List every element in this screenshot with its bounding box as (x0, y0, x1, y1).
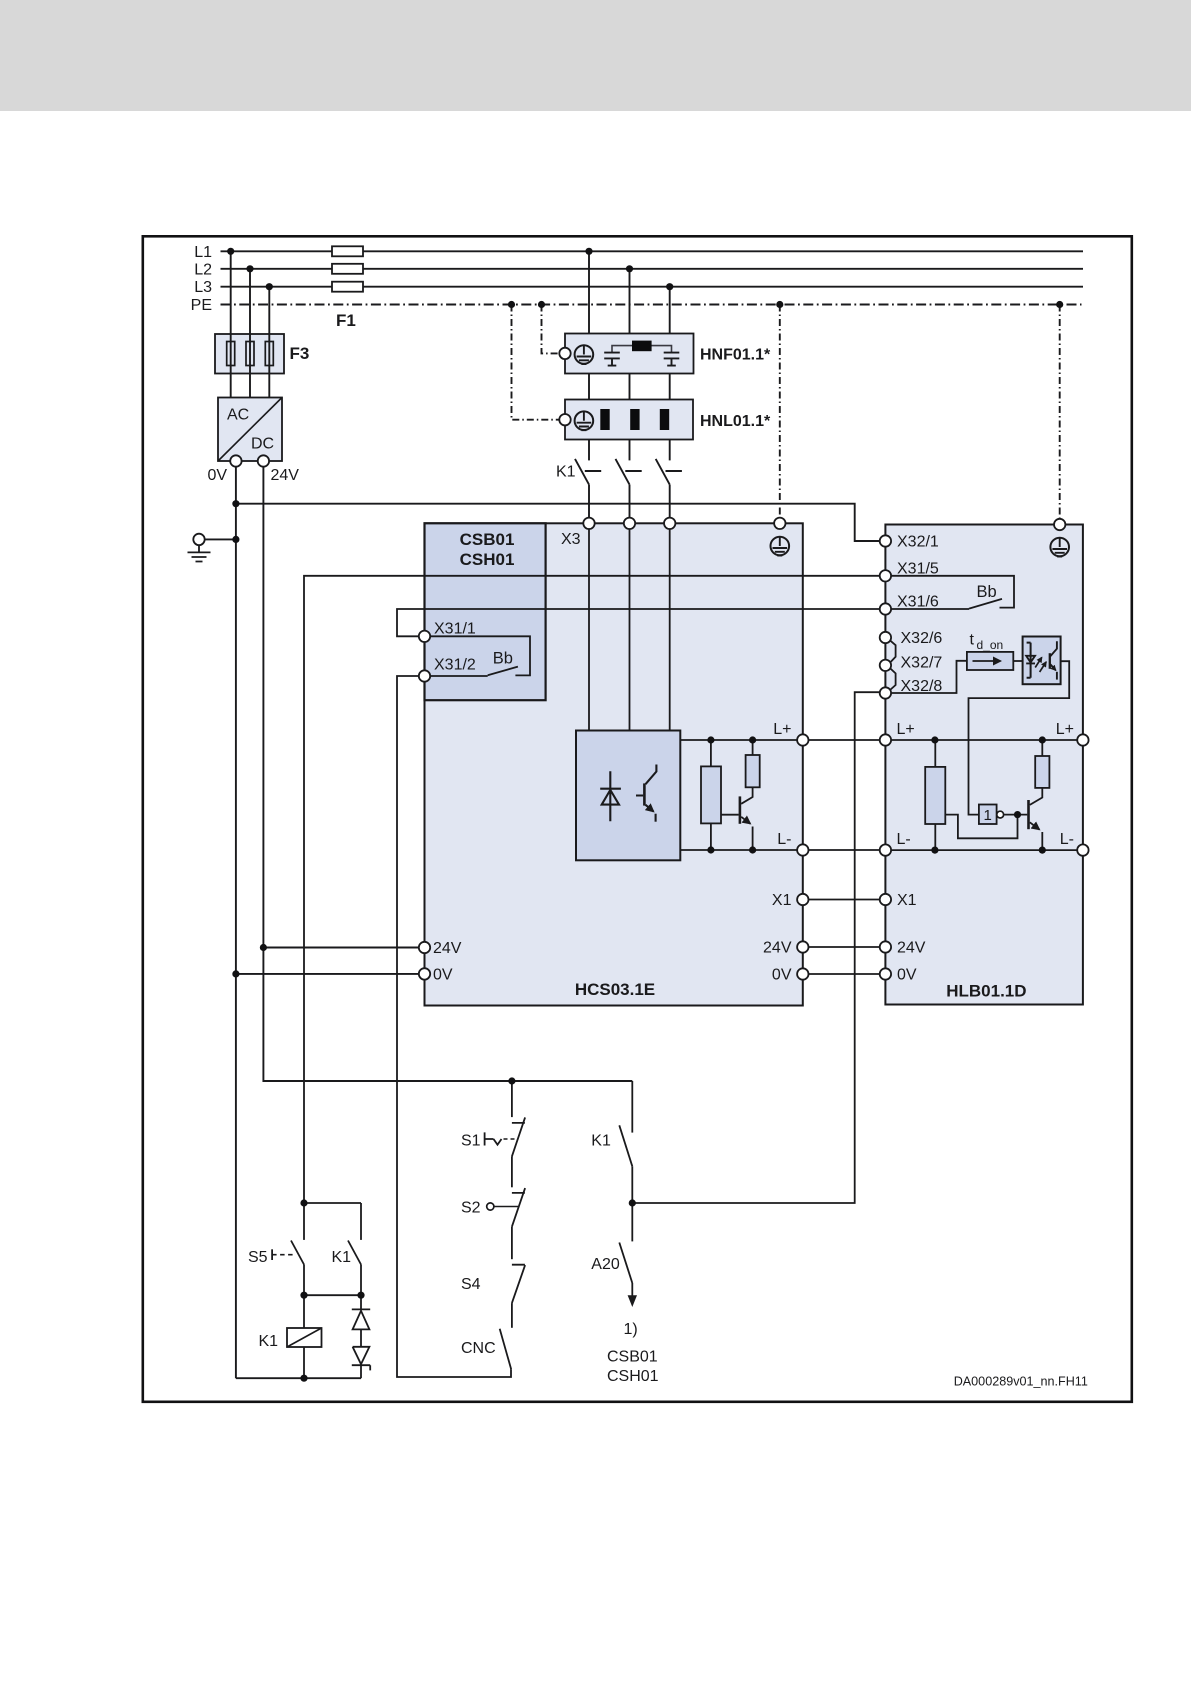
wire HNF to HNL pole 3 (669, 374, 671, 400)
node PE-HLB branch (1056, 301, 1063, 308)
wire resistor R-brake HCS stubs (710, 740, 712, 850)
node L+ R-chopper HLB (1039, 736, 1046, 743)
contact A20 (619, 1243, 632, 1284)
terminal HCS PE (774, 518, 785, 529)
switch S5 (291, 1241, 304, 1265)
svg-text:X1: X1 (897, 892, 917, 909)
node L+ R-chopper HCS (749, 736, 756, 743)
svg-text:24V: 24V (433, 940, 462, 957)
svg-text:X1: X1 (772, 892, 792, 909)
diode D1 freewheeling (360, 1295, 362, 1309)
terminal X32/7 (880, 660, 891, 671)
transistor Q1 HCS chopper (739, 796, 742, 823)
terminal X3 pole 1 (583, 518, 594, 529)
wire HCS to HLB 0V (809, 973, 880, 975)
terminal X32/6 (880, 632, 891, 643)
terminal X31/1 (419, 631, 430, 642)
svg-text:X31/5: X31/5 (897, 560, 939, 577)
wire X32/8 to t_d_on (891, 661, 967, 693)
svg-text:HNF01.1*: HNF01.1* (700, 347, 771, 364)
svg-text:HLB01.1D: HLB01.1D (946, 982, 1026, 1001)
svg-text:S2: S2 (461, 1200, 481, 1217)
wire L- rail HCS (680, 849, 797, 851)
wire 24V rail down to control chain (263, 461, 632, 1081)
wire 24V to HCS 24V (263, 947, 418, 949)
node L2-F3 (246, 265, 253, 272)
wire sense feedback loop (945, 815, 1017, 839)
terminal HNL PE (559, 414, 570, 425)
wire S2 to S4 (511, 1227, 513, 1260)
terminal HCS 0V left (419, 968, 430, 979)
terminal HCS L- (797, 844, 808, 855)
node PE-HNF branch (538, 301, 545, 308)
node 0V feed (232, 970, 239, 977)
contactor K1 pole 2 (616, 459, 642, 485)
diode symbol in rectifier module (600, 771, 621, 821)
wire HNL to K1 pole 1 (588, 440, 590, 461)
transistor Q1 HLB chopper (1027, 800, 1030, 829)
node L- emitter HCS (749, 846, 756, 853)
fuse F3 pole 1 (227, 342, 235, 366)
terminal HCS L+ (797, 734, 808, 745)
svg-text:d_on: d_on (977, 638, 1004, 652)
wire L2 tap to HNF (629, 269, 631, 334)
diode D2 zener (360, 1329, 362, 1346)
svg-text:0V: 0V (897, 967, 917, 984)
node L- R-brake HLB (931, 847, 938, 854)
box F3 fuse holder (215, 334, 284, 374)
terminal HLB L+ left (880, 734, 891, 745)
svg-text:L2: L2 (194, 261, 212, 278)
svg-text:X31/6: X31/6 (897, 594, 939, 611)
wire relay bottom rail to 0V (236, 1377, 361, 1379)
svg-text:24V: 24V (271, 467, 300, 484)
svg-text:PE: PE (191, 297, 212, 314)
terminal HLB L- right (1077, 844, 1088, 855)
AC/DC diagonal (218, 398, 282, 462)
wire PE branch to HNL ground (dash-dot) (512, 305, 560, 420)
capacitor C1 HNF (604, 353, 620, 366)
svg-text:S5: S5 (248, 1249, 268, 1266)
svg-text:X31/2: X31/2 (434, 657, 476, 674)
svg-text:HCS03.1E: HCS03.1E (575, 980, 655, 999)
wire 0V rail down left side (235, 461, 237, 1378)
svg-text:A20: A20 (591, 1256, 620, 1273)
switch S4 (512, 1265, 525, 1303)
wire PE branch to HNF ground (dash-dot) (542, 305, 560, 354)
svg-text:K1: K1 (259, 1333, 279, 1350)
wire K1 pole 3 to X3 (669, 485, 671, 518)
wire bubble to transistor base (1004, 814, 1028, 816)
svg-text:X32/6: X32/6 (901, 630, 943, 647)
svg-text:DA000289v01_nn.FH11: DA000289v01_nn.FH11 (954, 1375, 1088, 1389)
node L1-F3 (227, 248, 234, 255)
terminal HNF PE (559, 348, 570, 359)
gray header band (0, 0, 1191, 111)
node coil bottom rail (300, 1375, 307, 1382)
svg-text:X31/1: X31/1 (434, 621, 476, 638)
box AC/DC power supply (218, 398, 282, 462)
node L2-HNF (626, 265, 633, 272)
resistor R-brake HCS (701, 766, 721, 823)
wire HNF to HNL pole 2 (629, 374, 631, 400)
terminal HCS 24V left (419, 942, 430, 953)
S2 actuator (487, 1203, 494, 1210)
svg-text:L+: L+ (1056, 721, 1074, 738)
terminal X3 pole 3 (664, 518, 675, 529)
wire PE drop to HCS PE terminal (dash-dot) (779, 305, 781, 518)
terminal HLB 0V (880, 968, 891, 979)
node PE-HCS branch (776, 301, 783, 308)
wire X31/6 long link to X31/1 (397, 609, 880, 636)
node PE-HNL branch (508, 301, 515, 308)
wire resistor R-brake HLB stubs (934, 740, 936, 850)
inductor ferrite block HNF (632, 341, 652, 352)
terminal X31/6 (880, 603, 891, 614)
node 24V-S1 chain (508, 1077, 515, 1084)
wire L3 tap to HNF (669, 287, 671, 334)
node S5 top (300, 1199, 307, 1206)
wire HCS to HLB X1 (809, 899, 880, 901)
node L+ R-brake HLB (931, 736, 938, 743)
wire K1 pole 2 to X3 (629, 485, 631, 518)
wire L- rail HLB (891, 849, 1077, 851)
wire S5 to coil node (303, 1265, 305, 1296)
box HNL01.1 mains choke (565, 400, 693, 440)
HLB PE ground symbol (1050, 538, 1069, 557)
wire optocoupler output to driver 1 (969, 661, 1070, 814)
node diode branch top (357, 1292, 364, 1299)
terminal 24V of power supply (258, 455, 269, 466)
earth ground wire (205, 538, 236, 540)
wire K1 branch (631, 1081, 633, 1133)
terminal X31/2 (419, 670, 430, 681)
wire K1 pole 1 to X3 (588, 485, 590, 518)
t_d_on arrow (973, 660, 1001, 662)
wire PE dash-dot (221, 304, 1082, 306)
svg-text:L1: L1 (194, 244, 212, 261)
wire L1 drop to F3 (230, 251, 232, 397)
svg-text:L-: L- (777, 831, 791, 848)
wire HCS to HLB L- (809, 849, 880, 851)
contactor K1 pole 1 (575, 459, 601, 485)
resistor R-chopper HLB (1035, 756, 1049, 788)
HNL PE symbol (575, 411, 594, 430)
box rectifier/inverter module inside HCS (576, 731, 680, 861)
node L- emitter HLB (1039, 847, 1046, 854)
box HCS03.1E drive controller (425, 523, 803, 1005)
svg-text:1: 1 (984, 807, 992, 824)
wire HNL to K1 pole 2 (629, 440, 631, 461)
terminal 0V of power supply (230, 455, 241, 466)
wire PE drop to HLB PE terminal (dash-dot) (1059, 305, 1061, 519)
svg-text:F1: F1 (336, 311, 356, 330)
choke bar 1 HNL (600, 409, 609, 430)
svg-text:0V: 0V (772, 967, 792, 984)
wire L+ rail HLB (891, 739, 1077, 741)
node 0V-earth (232, 536, 239, 543)
HCS PE ground symbol (771, 537, 790, 556)
wire L2 (221, 268, 1084, 270)
svg-text:L+: L+ (773, 721, 791, 738)
svg-text:F3: F3 (290, 344, 310, 363)
choke bar 3 HNL (660, 409, 669, 430)
terminal HLB 24V (880, 941, 891, 952)
terminal HCS 24V right (797, 941, 808, 952)
svg-text:t: t (970, 632, 975, 649)
terminal HLB PE (1054, 519, 1065, 530)
svg-text:0V: 0V (433, 966, 453, 983)
arrow to note 1) (631, 1283, 633, 1296)
wire 0V to HCS 0V (236, 973, 419, 975)
terminal HLB L+ right (1077, 734, 1088, 745)
wire HNF to HNL pole 1 (588, 374, 590, 400)
svg-text:S4: S4 (461, 1276, 481, 1293)
switch CNC contact (500, 1329, 512, 1370)
resistor R-brake HLB (925, 767, 945, 824)
wire HCS to HLB 24V (809, 946, 880, 948)
schematic border frame (143, 236, 1132, 1402)
svg-text:CSH01: CSH01 (607, 1368, 659, 1385)
transistor symbol in rectifier module (643, 783, 646, 805)
fuse F1 pole 1 (332, 246, 363, 256)
wire node link (304, 1294, 361, 1296)
node 24V feed (260, 944, 267, 951)
HNF PE symbol (575, 345, 594, 364)
svg-text:L3: L3 (194, 279, 212, 296)
wire resistor R-chopper HLB stub (1041, 740, 1043, 756)
svg-text:S1: S1 (461, 1133, 481, 1150)
wire resistor R-chopper HCS stub (752, 740, 754, 755)
svg-text:Bb: Bb (977, 583, 997, 601)
box CSB01 CSH01 control section (425, 523, 546, 700)
driver 1 output bubble (997, 811, 1004, 818)
svg-text:0V: 0V (208, 467, 228, 484)
svg-text:K1: K1 (332, 1249, 352, 1266)
capacitor C2 HNF (664, 353, 680, 366)
node L3-HNF (666, 283, 673, 290)
Bb contact inside HLB (891, 576, 1014, 609)
terminal HCS 0V right (797, 968, 808, 979)
X32/6-7-8 bridge bracket (890, 640, 896, 690)
fuse F1 pole 3 (332, 282, 363, 292)
contactor K1 pole 3 (656, 459, 682, 485)
svg-text:X32/7: X32/7 (901, 655, 943, 672)
S1 manual actuator (485, 1132, 502, 1145)
svg-text:K1: K1 (556, 464, 576, 481)
optocoupler light arrows (1035, 657, 1042, 667)
choke bar 2 HNL (630, 409, 639, 430)
terminal X3 pole 2 (624, 518, 635, 529)
wire L3 (221, 286, 1084, 288)
fuse F1 pole 2 (332, 264, 363, 274)
svg-text:CSH01: CSH01 (460, 550, 515, 569)
node S5 bottom (300, 1292, 307, 1299)
terminal X32/1 (880, 535, 891, 546)
fuse F3 pole 3 (265, 342, 273, 366)
fuse F3 pole 2 (246, 342, 254, 366)
svg-text:CSB01: CSB01 (460, 530, 515, 549)
box HNF01.1 mains filter (565, 334, 694, 374)
svg-text:24V: 24V (897, 940, 926, 957)
svg-text:DC: DC (251, 436, 274, 453)
wire L1 tap to HNF (588, 251, 590, 333)
node L- R-brake HCS (707, 846, 714, 853)
resistor R-chopper HCS (746, 755, 760, 787)
Bb contact inside CSB01 (430, 636, 530, 676)
wire X3 pole 2 into rectifier (629, 529, 631, 731)
svg-text:X3: X3 (561, 531, 581, 548)
node L3-F3 (266, 283, 273, 290)
wire X3 pole 1 into rectifier (588, 529, 590, 731)
terminal X31/5 (880, 570, 891, 581)
terminal HLB X1 (880, 894, 891, 905)
svg-text:AC: AC (227, 407, 249, 424)
relay coil K1 (303, 1295, 305, 1328)
terminal X32/8 (880, 687, 891, 698)
svg-text:K1: K1 (591, 1133, 611, 1150)
contact K1 (auxiliary) (619, 1125, 632, 1166)
switch S1 (512, 1117, 525, 1156)
wire t_d_on to optocoupler (1013, 660, 1022, 662)
node K1-A20-X32/8 (629, 1199, 636, 1206)
wire L3 drop to F3 (268, 287, 270, 398)
wire X31/2 down to CNC chain (397, 676, 511, 1377)
wire X31/5 long link (HLB Bb to relay chain) (304, 576, 880, 1203)
wire HNL to K1 pole 3 (669, 440, 671, 461)
svg-text:X32/8: X32/8 (901, 678, 943, 695)
svg-text:L-: L- (1060, 831, 1074, 848)
wire S4 to CNC (511, 1303, 513, 1328)
svg-text:X32/1: X32/1 (897, 534, 939, 551)
box optocoupler U-opto HLB (1023, 637, 1061, 685)
wire node to A20 (631, 1203, 633, 1241)
wire K1 contact to diode node (360, 1265, 362, 1296)
wire K1 to node (631, 1166, 633, 1203)
svg-text:Bb: Bb (493, 650, 513, 668)
wire 0V to X32/1 of HLB (236, 504, 880, 541)
svg-text:L+: L+ (897, 721, 915, 738)
optocoupler phototransistor (1049, 653, 1051, 669)
svg-text:CNC: CNC (461, 1340, 496, 1357)
HNF internal rail with ferrite (612, 346, 672, 353)
node 0V-X32/1 (232, 500, 239, 507)
svg-text:1): 1) (624, 1321, 638, 1338)
wire L+ rail HCS (680, 739, 797, 741)
wire L1 (221, 250, 1084, 252)
svg-text:HNL01.1*: HNL01.1* (700, 413, 771, 430)
node base HLB (1014, 811, 1021, 818)
wire to S5 (303, 1203, 305, 1240)
node L+ R-brake HCS (707, 736, 714, 743)
S5 actuator (271, 1249, 273, 1260)
wire X32/8 control link from K1/A20 node (632, 692, 879, 1203)
svg-text:24V: 24V (763, 940, 792, 957)
wire S1 to S2 (511, 1156, 513, 1187)
wire X3 pole 3 into rectifier (669, 529, 671, 731)
terminal HCS X1 (797, 894, 808, 905)
svg-text:L-: L- (897, 831, 911, 848)
optocoupler LED side (1027, 643, 1031, 678)
wire HCS to HLB L+ (809, 739, 880, 741)
wire S5 node link (304, 1202, 361, 1204)
wire L2 drop to F3 (249, 269, 251, 398)
wire 24V chain top rail handled; S1 branch (511, 1081, 513, 1117)
svg-text:CSB01: CSB01 (607, 1349, 658, 1366)
contact K1 seal-in (348, 1241, 361, 1265)
switch S2 (512, 1188, 525, 1227)
terminal HLB L- left (880, 844, 891, 855)
box HLB01.1D braking unit (885, 525, 1083, 1005)
earth ground symbol (193, 534, 204, 545)
node L1-HNF (585, 248, 592, 255)
box driver 1 HLB (979, 805, 997, 825)
wire to K1 seal-in contact (360, 1203, 362, 1240)
box t_d_on delay HLB (967, 652, 1013, 670)
